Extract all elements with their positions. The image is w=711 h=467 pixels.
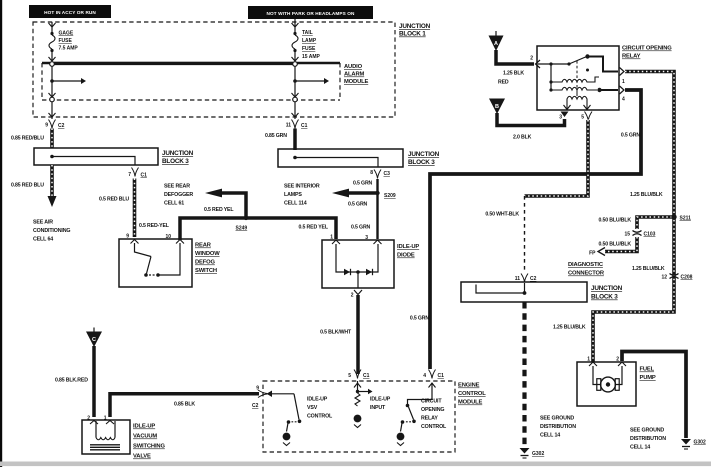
svg-text:0.5 RED YEL: 0.5 RED YEL: [204, 207, 234, 213]
relay pin 3: [559, 112, 568, 121]
svg-text:IDLE-UP: IDLE-UP: [370, 397, 391, 403]
svg-text:0.5 BLK/WHT: 0.5 BLK/WHT: [320, 330, 352, 336]
junction block U1: JUNCTION BLOCK 1 dashed box: [33, 22, 431, 117]
svg-text:C208: C208: [681, 275, 693, 281]
relay pin 4: [620, 86, 626, 103]
svg-text:1.25 BLU/BLK: 1.25 BLU/BLK: [630, 192, 663, 198]
svg-text:JUNCTION: JUNCTION: [399, 23, 431, 30]
svg-text:BLOCK 3: BLOCK 3: [408, 159, 435, 166]
svg-text:C2: C2: [530, 276, 537, 282]
svg-text:LAMPS: LAMPS: [284, 192, 302, 198]
svg-text:SEE GROUND: SEE GROUND: [630, 428, 664, 434]
svg-text:FP: FP: [589, 251, 596, 257]
wire: 0.85 GRN down to junction block 3 right: [265, 129, 295, 151]
svg-text:JUNCTION: JUNCTION: [591, 285, 623, 292]
svg-text:VALVE: VALVE: [133, 454, 151, 460]
wire: 1.25 BLK RED from A to relay pin 2: [496, 50, 534, 86]
svg-text:SEE REAR: SEE REAR: [164, 184, 190, 190]
wire: 2.0 BLK from B to relay pin 3: [497, 113, 565, 141]
svg-text:WINDOW: WINDOW: [195, 251, 220, 257]
svg-text:0.50 BLU/BLK: 0.50 BLU/BLK: [598, 218, 631, 224]
ECM driver: idle-up VSV control: [267, 391, 334, 446]
fuse F1: GAGE FUSE 7.5 AMP: [49, 22, 79, 66]
svg-text:CELL 61: CELL 61: [164, 201, 184, 207]
svg-text:DIODE: DIODE: [397, 253, 415, 259]
rear window defog switch SW1: [119, 234, 220, 288]
svg-text:VSV: VSV: [307, 405, 318, 411]
wire: 0.85 RED/BLU down to junction block 3: [11, 129, 52, 149]
wire: 0.5 GRN from relay pin 4 to ECM pin 4: [410, 90, 641, 369]
svg-text:1: 1: [622, 79, 625, 85]
svg-text:DEFOGGER: DEFOGGER: [164, 192, 193, 198]
svg-text:0.5 GRN: 0.5 GRN: [348, 202, 368, 208]
svg-text:15 AMP: 15 AMP: [302, 54, 321, 60]
svg-text:C: C: [92, 337, 96, 343]
svg-text:JUNCTION: JUNCTION: [408, 151, 440, 158]
relay interior: switch contact and coils: [538, 54, 618, 110]
ECM connector C1 pin 4: [423, 370, 444, 388]
connector C1 pin 11 (junction block 1 right output): [286, 120, 308, 130]
svg-text:PUMP: PUMP: [640, 375, 656, 381]
svg-text:C1: C1: [141, 173, 148, 179]
svg-text:0.5 RED-YEL: 0.5 RED-YEL: [139, 223, 170, 229]
svg-text:OPENING: OPENING: [421, 407, 444, 413]
svg-text:1: 1: [104, 416, 107, 422]
wire: from relay pin 5 down: [525, 120, 589, 196]
svg-text:BLOCK 3: BLOCK 3: [162, 158, 189, 165]
svg-text:DISTRIBUTION: DISTRIBUTION: [630, 436, 666, 442]
svg-text:B: B: [495, 104, 499, 110]
svg-text:BLOCK 3: BLOCK 3: [591, 294, 618, 301]
fuse F2: TAIL LAMP FUSE 15 AMP: [292, 19, 321, 66]
svg-text:C103: C103: [644, 232, 656, 238]
svg-text:CELL 14: CELL 14: [540, 433, 560, 439]
svg-text:ALARM: ALARM: [344, 72, 364, 78]
connector C103 pin 15: [624, 231, 655, 238]
svg-text:9: 9: [126, 234, 129, 240]
wire: 1.25 BLU/BLK from relay pin 1 down right side to fuel pump pin 1: [553, 72, 674, 363]
svg-text:0.50 WHT-BLK: 0.50 WHT-BLK: [485, 212, 519, 218]
svg-text:GAGE: GAGE: [59, 31, 74, 37]
ECM driver: circuit opening relay control: [397, 383, 447, 446]
svg-text:DEFOG: DEFOG: [195, 260, 216, 266]
svg-text:0.85 BLK: 0.85 BLK: [174, 402, 195, 408]
svg-text:IDLE-UP: IDLE-UP: [307, 397, 328, 403]
svg-text:SEE GROUND: SEE GROUND: [540, 416, 574, 422]
svg-text:C1: C1: [363, 373, 370, 379]
terminal: module bottom right: [292, 93, 299, 119]
svg-text:8: 8: [370, 170, 373, 176]
svg-text:RELAY: RELAY: [421, 416, 438, 422]
ECM input: idle-up input resistor: [354, 381, 391, 428]
ECM connector C2 pin 9: [252, 386, 267, 410]
ground G302 (left): [520, 448, 545, 458]
svg-text:SEE INTERIOR: SEE INTERIOR: [284, 184, 320, 190]
svg-text:7.5 AMP: 7.5 AMP: [59, 46, 79, 52]
wire: 0.50 BLU/BLK from C103 to FP terminal: [589, 237, 637, 257]
svg-text:4: 4: [423, 373, 426, 379]
svg-text:10: 10: [166, 234, 172, 240]
svg-text:LAMP: LAMP: [302, 38, 317, 44]
svg-text:IDLE-UP: IDLE-UP: [133, 424, 155, 430]
svg-text:1.25 BLK: 1.25 BLK: [503, 71, 524, 77]
svg-text:C2: C2: [58, 123, 65, 129]
wire: 0.85 BLK.RED from C to VSV pin 2: [55, 346, 94, 417]
wire: 0.5 BLK/WHT from diode pin 2 to ECM pin 5: [320, 295, 358, 374]
svg-text:FUSE: FUSE: [302, 46, 316, 52]
svg-text:0.85 RED/BLU: 0.85 RED/BLU: [11, 136, 44, 142]
svg-text:0.50 BLU/BLK: 0.50 BLU/BLK: [598, 242, 631, 248]
svg-text:5: 5: [348, 373, 351, 379]
power source triangle B: [489, 99, 505, 115]
svg-text:C1: C1: [438, 373, 445, 379]
svg-text:REAR: REAR: [195, 243, 212, 249]
connector C1 pin 7 (junction block 3 output): [128, 168, 147, 179]
wire: 0.85 BLK from VSV pin 1 to ECM pin 9: [110, 394, 259, 417]
wire: ground wire from junction block 3 to G302: [525, 302, 577, 447]
svg-text:4: 4: [622, 97, 625, 103]
relay pin 5: [581, 112, 592, 121]
diagnostic connector label: [568, 262, 605, 277]
svg-text:VACUUM: VACUUM: [133, 434, 157, 440]
label: HOT IN ACCY OR RUN: [29, 5, 111, 18]
svg-text:9: 9: [45, 123, 48, 129]
svg-text:0.5 RED BLU: 0.5 RED BLU: [99, 197, 129, 203]
svg-text:5: 5: [581, 115, 584, 121]
svg-text:NOT WITH PARK OR HEADLAMPS ON: NOT WITH PARK OR HEADLAMPS ON: [267, 11, 355, 16]
svg-text:0.5 GRN: 0.5 GRN: [353, 181, 373, 187]
svg-text:CIRCUIT OPENING: CIRCUIT OPENING: [622, 46, 672, 52]
svg-text:CELL 64: CELL 64: [33, 237, 53, 243]
svg-text:AUDIO: AUDIO: [344, 64, 363, 70]
svg-text:0.85 RED BLU: 0.85 RED BLU: [11, 183, 44, 189]
idle-up diode D1: [322, 235, 419, 289]
svg-text:2: 2: [616, 357, 619, 363]
splice S249 with branch to rear defogger: [164, 184, 248, 232]
audio alarm module dashed box: [42, 63, 369, 100]
svg-text:C2: C2: [252, 403, 259, 409]
svg-text:FUSE: FUSE: [59, 38, 73, 44]
svg-text:SWITCH: SWITCH: [195, 268, 217, 274]
svg-text:0.85 GRN: 0.85 GRN: [265, 133, 287, 139]
svg-text:7: 7: [128, 172, 131, 178]
power source triangle C: [86, 328, 102, 348]
svg-text:11: 11: [515, 276, 521, 282]
svg-text:0.5 GRN: 0.5 GRN: [410, 316, 430, 322]
svg-text:1.25 BLU/BLK: 1.25 BLU/BLK: [553, 325, 586, 331]
wire: 0.85 RED BLU to air conditioning: [11, 165, 70, 243]
svg-text:BLOCK 1: BLOCK 1: [399, 31, 426, 38]
relay pin 1: [620, 68, 626, 86]
svg-text:CONTROL: CONTROL: [307, 414, 333, 420]
wire: 0.5 RED YEL from defog pin 10 to idle-up diode pin 1: [180, 207, 336, 240]
circuit opening relay K1: [537, 46, 672, 111]
label: NOT WITH PARK OR HEADLAMPS ON: [248, 6, 373, 19]
wire: BLK from fuel pump pin 2 to G302 right: [622, 352, 686, 451]
terminal: module bottom left: [49, 93, 56, 119]
svg-text:S211: S211: [680, 216, 692, 222]
svg-text:DISTRIBUTION: DISTRIBUTION: [540, 424, 576, 430]
svg-text:TAIL: TAIL: [302, 30, 313, 36]
svg-text:JUNCTION: JUNCTION: [162, 150, 194, 157]
svg-text:12: 12: [661, 275, 667, 281]
svg-text:3: 3: [365, 235, 368, 241]
svg-text:0.5 GRN: 0.5 GRN: [351, 225, 371, 231]
junction block J3L: JUNCTION BLOCK 3 (left): [34, 148, 194, 165]
node: audio alarm tap left with arrow: [50, 66, 86, 97]
svg-text:2: 2: [351, 293, 354, 299]
idle-up vacuum switching valve L1: [82, 416, 165, 460]
svg-text:2: 2: [87, 416, 90, 422]
svg-text:S209: S209: [384, 193, 396, 199]
svg-text:CELL 114: CELL 114: [284, 201, 307, 207]
svg-text:ENGINE: ENGINE: [458, 383, 480, 389]
splice S211: [671, 214, 691, 221]
svg-text:RELAY: RELAY: [622, 54, 641, 60]
splice S209 with branch to interior lamps: [284, 184, 396, 207]
wire: bus between fuse outputs: [54, 62, 293, 65]
connector: diode pin 2: [351, 290, 362, 299]
ECM connector C1 pin 5: [348, 370, 369, 388]
node: audio alarm tap right with arrow: [293, 66, 329, 97]
relay pin 2: [530, 56, 540, 69]
svg-text:1: 1: [587, 357, 590, 363]
svg-text:MODULE: MODULE: [458, 400, 483, 406]
svg-text:1: 1: [330, 235, 333, 241]
wire: 0.50 BLU/BLK from S211 to diagnostic connector FP: [598, 217, 672, 229]
connector C2 pin 11 (junction block 3 lower): [515, 274, 537, 283]
svg-text:C1: C1: [301, 123, 308, 129]
svg-text:15: 15: [624, 232, 630, 238]
svg-text:CONTROL: CONTROL: [421, 424, 447, 430]
svg-text:CIRCUIT: CIRCUIT: [421, 399, 442, 405]
engine control module ECM dashed box: [263, 381, 486, 452]
svg-text:CONNECTOR: CONNECTOR: [568, 271, 605, 277]
wire: 0.5 GRN from pin 8 to idle-up diode pin 3: [348, 179, 378, 239]
ground G302 (right): [681, 439, 706, 449]
svg-text:2: 2: [530, 56, 533, 62]
fuel pump M1: [577, 357, 656, 407]
junction block J3R-low: JUNCTION BLOCK 3 (lower right): [461, 282, 623, 302]
svg-text:CELL 14: CELL 14: [630, 445, 650, 451]
svg-text:0.5 RED YEL: 0.5 RED YEL: [299, 225, 329, 231]
svg-text:A: A: [494, 41, 498, 47]
connector C208 pin 12: [661, 274, 692, 281]
svg-text:IDLE-UP: IDLE-UP: [397, 244, 419, 250]
svg-text:G302: G302: [694, 440, 706, 446]
svg-text:S249: S249: [236, 226, 248, 232]
svg-text:1.25 BLU/BLK: 1.25 BLU/BLK: [632, 266, 665, 272]
svg-text:CONDITIONING: CONDITIONING: [33, 228, 70, 234]
connector C3 pin 8 (junction block 3 right output): [370, 170, 390, 179]
svg-text:RED: RED: [498, 80, 509, 86]
svg-text:HOT IN ACCY OR RUN: HOT IN ACCY OR RUN: [44, 10, 96, 15]
svg-text:INPUT: INPUT: [370, 405, 386, 411]
wire: 0.5 RED BLU / 0.5 RED-YEL from pin 7 to defog switch pin 9: [99, 179, 170, 238]
svg-text:SWITCHING: SWITCHING: [133, 444, 165, 450]
svg-text:FUEL: FUEL: [640, 367, 655, 373]
connector C2 pin 9 (junction block 1 left output): [45, 120, 64, 130]
svg-text:2.0 BLK: 2.0 BLK: [513, 135, 532, 141]
svg-text:SEE AIR: SEE AIR: [33, 220, 53, 226]
svg-text:C3: C3: [384, 171, 391, 177]
junction block J3R-top: JUNCTION BLOCK 3 (right): [278, 149, 440, 167]
svg-text:CONTROL: CONTROL: [458, 391, 486, 397]
svg-text:11: 11: [286, 123, 292, 129]
svg-text:MODULE: MODULE: [344, 79, 369, 85]
svg-text:3: 3: [559, 115, 562, 121]
wire: 0.50 WHT-BLK dashed down to junction block pin 11: [485, 196, 524, 273]
power source triangle A: [489, 31, 504, 51]
svg-text:0.85 BLK.RED: 0.85 BLK.RED: [55, 378, 88, 384]
svg-text:DIAGNOSTIC: DIAGNOSTIC: [568, 262, 604, 268]
svg-text:0.5 GRN: 0.5 GRN: [621, 133, 641, 139]
svg-text:G302: G302: [532, 451, 544, 457]
